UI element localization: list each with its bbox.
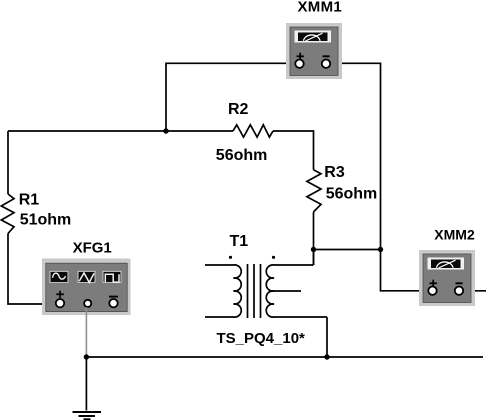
wire R2 right to R3 top bbox=[273, 131, 314, 170]
multimeter XMM1 bbox=[286, 23, 342, 79]
wire XMM2 minus to right edge bbox=[463, 290, 486, 292]
transformer T1 secondary phase dot bbox=[272, 256, 275, 259]
svg-text:56ohm: 56ohm bbox=[326, 186, 378, 203]
wire T1 secondary top to node B bbox=[313, 250, 315, 266]
junction T1 bottom on ground rail bbox=[324, 354, 329, 359]
wire XFG1 common to ground node (grey) bbox=[85, 307, 87, 357]
wire XMM1 plus to node A bbox=[166, 63, 296, 131]
transformer T1 core bbox=[248, 264, 261, 318]
svg-text:TS_PQ4_10*: TS_PQ4_10* bbox=[217, 330, 306, 347]
wire XMM1 minus down right rail to XMM2 plus bbox=[330, 63, 428, 290]
svg-text:XFG1: XFG1 bbox=[73, 240, 112, 257]
wire R1 top lead bbox=[7, 131, 9, 194]
transformer T1 primary phase dot bbox=[229, 256, 232, 259]
transformer T1 center tap lead bbox=[274, 290, 301, 292]
wire T1 secondary bottom to ground rail bbox=[326, 317, 328, 357]
svg-text:51ohm: 51ohm bbox=[20, 212, 72, 229]
svg-text:R1: R1 bbox=[19, 192, 40, 209]
svg-text:XMM1: XMM1 bbox=[298, 0, 343, 15]
svg-text:R2: R2 bbox=[228, 101, 249, 118]
multimeter XMM2 bbox=[419, 250, 475, 306]
svg-text:XMM2: XMM2 bbox=[434, 227, 475, 243]
junction node A bbox=[163, 128, 168, 133]
ground bbox=[73, 357, 102, 419]
svg-text:R3: R3 bbox=[324, 164, 345, 181]
resistor R3 bbox=[307, 170, 321, 212]
wire node A top horizontal (R1 top to R2 left) bbox=[8, 130, 233, 132]
svg-text:T1: T1 bbox=[230, 233, 249, 250]
wire R1 bottom to XFG1 plus bbox=[8, 234, 56, 305]
junction ground node bbox=[84, 354, 89, 359]
junction node B bbox=[311, 247, 316, 252]
transformer T1 secondary winding bbox=[266, 265, 327, 317]
wire ground rail bbox=[86, 356, 483, 358]
function generator XFG1 bbox=[42, 259, 131, 316]
wire R3 bottom to T1 secondary top bbox=[313, 212, 315, 265]
svg-text:56ohm: 56ohm bbox=[216, 147, 268, 164]
wire node B to right rail bbox=[314, 249, 381, 251]
junction node C bbox=[378, 247, 383, 252]
transformer T1 primary winding bbox=[205, 265, 241, 317]
resistor R2 bbox=[233, 125, 273, 137]
resistor R1 bbox=[1, 194, 14, 234]
